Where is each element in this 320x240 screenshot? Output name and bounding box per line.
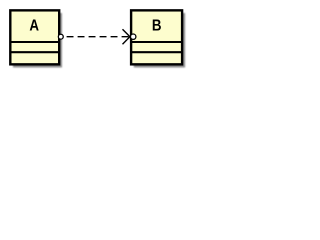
class B divider 1 bbox=[131, 41, 182, 43]
class B shadow bbox=[134, 13, 185, 68]
class A divider 1 bbox=[10, 41, 59, 43]
class B divider 2 bbox=[131, 51, 182, 53]
wire: dashed dependency line A->B bbox=[67, 36, 130, 38]
class A divider 2 bbox=[10, 51, 59, 53]
node circle at B bbox=[131, 34, 136, 39]
class A shadow bbox=[13, 13, 62, 68]
svg-text:A: A bbox=[29, 17, 39, 34]
class A box bbox=[10, 10, 59, 64]
svg-text:B: B bbox=[152, 17, 162, 34]
arrowhead (open) at B bbox=[123, 29, 130, 44]
class B box bbox=[131, 10, 182, 64]
node circle at A bbox=[58, 34, 63, 39]
